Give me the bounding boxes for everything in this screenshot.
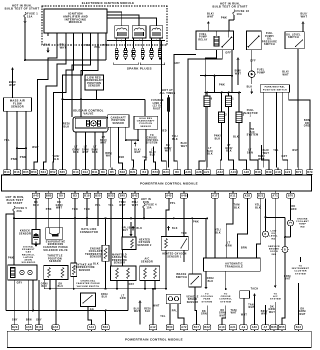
- svg-text:A17: A17: [212, 195, 218, 198]
- svg-text:SOLENOID VALVE: SOLENOID VALVE: [43, 249, 68, 252]
- svg-text:WHT: WHT: [134, 311, 140, 313]
- svg-text:10A: 10A: [147, 206, 152, 209]
- svg-text:D13: D13: [73, 171, 79, 174]
- svg-text:B4: B4: [142, 171, 146, 174]
- svg-text:A13: A13: [275, 171, 281, 174]
- svg-text:BRN/: BRN/: [105, 153, 112, 155]
- svg-text:WHT: WHT: [60, 46, 67, 50]
- svg-text:BRN: BRN: [241, 247, 247, 250]
- svg-text:BLK: BLK: [93, 264, 99, 266]
- svg-text:RELAY: RELAY: [198, 38, 207, 41]
- svg-text:A26: A26: [185, 171, 191, 174]
- svg-text:WHT: WHT: [235, 72, 242, 75]
- svg-text:BLK: BLK: [207, 153, 213, 156]
- svg-text:B34: B34: [103, 326, 109, 329]
- svg-text:B3: B3: [73, 195, 77, 198]
- svg-text:EXHAUST: EXHAUST: [22, 248, 35, 251]
- svg-text:VALVE: VALVE: [83, 112, 93, 116]
- svg-text:WHT: WHT: [248, 307, 254, 309]
- svg-text:SENSOR: SENSOR: [141, 260, 153, 263]
- svg-text:SYSTEM: SYSTEM: [220, 301, 231, 303]
- svg-text:B16: B16: [14, 171, 20, 174]
- svg-text:YEL: YEL: [273, 149, 279, 152]
- svg-text:BLK: BLK: [255, 206, 261, 209]
- svg-text:PNK: PNK: [8, 257, 14, 260]
- svg-text:BLK: BLK: [150, 155, 156, 157]
- svg-text:B52: B52: [50, 171, 56, 174]
- svg-text:PPL/: PPL/: [122, 228, 128, 230]
- svg-text:BULB TEST OR START: BULB TEST OR START: [212, 5, 247, 9]
- svg-text:WHT: WHT: [165, 150, 172, 153]
- svg-text:VEHICLE: VEHICLE: [186, 297, 198, 299]
- svg-text:SENSOR: SENSOR: [79, 270, 91, 272]
- svg-text:GAS: GAS: [26, 251, 32, 254]
- svg-text:WHT: WHT: [181, 145, 188, 148]
- svg-text:A72: A72: [181, 326, 187, 329]
- svg-text:MODULE: MODULE: [69, 20, 83, 24]
- svg-text:POSITION SWITCH: POSITION SWITCH: [263, 89, 287, 91]
- svg-text:BLK: BLK: [247, 86, 253, 89]
- svg-text:B70: B70: [288, 195, 294, 198]
- svg-text:PNK: PNK: [20, 155, 26, 159]
- svg-text:GRY: GRY: [12, 320, 18, 322]
- svg-text:MANIFOLD: MANIFOLD: [112, 254, 127, 257]
- svg-text:PNK: PNK: [193, 221, 199, 224]
- svg-text:IND: IND: [300, 226, 305, 228]
- svg-text:B13: B13: [296, 326, 302, 329]
- svg-text:SWITCH: SWITCH: [176, 276, 187, 279]
- svg-text:VACUUM SWITCH: VACUUM SWITCH: [77, 285, 100, 288]
- svg-text:B: B: [265, 234, 267, 236]
- svg-text:BLK: BLK: [226, 150, 232, 153]
- svg-text:OR START: OR START: [7, 202, 22, 205]
- svg-text:A9: A9: [242, 326, 246, 329]
- svg-text:SENSOR: SENSOR: [49, 260, 61, 263]
- svg-text:TACH: TACH: [251, 288, 259, 291]
- svg-text:A32: A32: [218, 171, 224, 174]
- svg-text:FUEL: FUEL: [266, 33, 274, 35]
- svg-text:TAN: TAN: [181, 232, 187, 235]
- svg-text:POSITION: POSITION: [112, 120, 126, 122]
- svg-text:BLK: BLK: [102, 297, 108, 299]
- svg-text:BLK: BLK: [53, 157, 59, 161]
- svg-text:OIL LEVEL: OIL LEVEL: [286, 34, 301, 36]
- svg-text:B42: B42: [132, 195, 138, 198]
- svg-text:SYSTEM: SYSTEM: [247, 134, 259, 137]
- svg-text:A21: A21: [204, 171, 210, 174]
- svg-text:SPARK PLUGS: SPARK PLUGS: [127, 67, 152, 71]
- svg-text:PPL: PPL: [170, 202, 176, 205]
- svg-text:COOLANT: COOLANT: [296, 220, 309, 223]
- svg-text:RUST): RUST): [153, 107, 162, 110]
- svg-text:OXYGEN: OXYGEN: [139, 242, 151, 244]
- svg-text:B18: B18: [120, 171, 126, 174]
- svg-text:SENSOR: SENSOR: [112, 123, 124, 125]
- svg-text:PUMP: PUMP: [257, 72, 265, 75]
- svg-text:B43: B43: [255, 171, 261, 174]
- svg-text:B16: B16: [36, 326, 42, 329]
- svg-text:BULB TEST OF START: BULB TEST OF START: [5, 7, 40, 11]
- svg-text:B49: B49: [266, 171, 272, 174]
- svg-text:DIGITAL: DIGITAL: [23, 246, 34, 249]
- svg-text:YEL: YEL: [142, 157, 148, 159]
- svg-text:B79: B79: [307, 171, 313, 174]
- svg-text:PNK: PNK: [219, 84, 225, 87]
- svg-text:RED/: RED/: [144, 309, 151, 311]
- svg-text:ORG/: ORG/: [101, 294, 108, 296]
- svg-text:CANISTER PURGE: CANISTER PURGE: [76, 282, 100, 285]
- svg-text:B50: B50: [95, 195, 101, 198]
- svg-text:GRN/: GRN/: [268, 309, 275, 311]
- svg-text:RED: RED: [119, 157, 125, 159]
- svg-text:GRN/: GRN/: [219, 313, 226, 315]
- svg-text:ALL TIMES: ALL TIMES: [159, 92, 175, 95]
- svg-text:B44: B44: [41, 171, 47, 174]
- svg-text:DK: DK: [301, 309, 305, 311]
- svg-text:A/C: A/C: [273, 295, 278, 298]
- svg-text:OFF: OFF: [225, 52, 231, 55]
- svg-text:TAN/: TAN/: [230, 309, 237, 312]
- svg-text:PNK: PNK: [102, 43, 108, 47]
- svg-text:CAMSHAFT: CAMSHAFT: [111, 116, 127, 119]
- svg-text:ORG: ORG: [304, 125, 310, 128]
- svg-text:B9: B9: [101, 171, 105, 174]
- svg-text:B41: B41: [92, 171, 98, 174]
- svg-text:A45: A45: [166, 195, 172, 198]
- svg-text:B19: B19: [84, 195, 90, 198]
- svg-text:SPEED: SPEED: [188, 299, 197, 301]
- svg-text:A60: A60: [252, 326, 258, 329]
- svg-text:WHT: WHT: [269, 312, 275, 314]
- svg-text:A71: A71: [272, 195, 278, 198]
- svg-text:OFF: OFF: [250, 60, 256, 63]
- svg-text:GRY: GRY: [174, 62, 180, 65]
- svg-text:B20: B20: [163, 171, 169, 174]
- svg-text:ELECTRONIC IGNITION MODULE: ELECTRONIC IGNITION MODULE: [82, 1, 135, 5]
- svg-text:BLK: BLK: [215, 231, 221, 234]
- svg-text:WHT: WHT: [100, 142, 107, 145]
- svg-text:BLK: BLK: [233, 136, 239, 139]
- svg-text:BLU: BLU: [58, 286, 64, 288]
- svg-text:DK: DK: [270, 307, 274, 309]
- svg-text:WHT: WHT: [122, 230, 128, 232]
- svg-text:K28: K28: [245, 195, 251, 198]
- svg-text:PNK: PNK: [11, 157, 17, 161]
- svg-text:ENGINE: ENGINE: [90, 249, 101, 251]
- svg-text:YEL: YEL: [4, 138, 10, 142]
- svg-text:B45: B45: [60, 171, 66, 174]
- svg-text:WHT: WHT: [207, 16, 214, 19]
- svg-text:B32: B32: [204, 326, 210, 329]
- svg-text:A28: A28: [244, 171, 250, 174]
- svg-text:SWITCH: SWITCH: [288, 37, 299, 39]
- svg-text:BLU/: BLU/: [134, 309, 141, 311]
- svg-text:WHT: WHT: [153, 306, 159, 308]
- svg-text:COOLANT: COOLANT: [89, 250, 103, 253]
- svg-text:FANS: FANS: [203, 298, 210, 301]
- svg-text:PPL: PPL: [94, 45, 100, 49]
- svg-text:GRN: GRN: [290, 208, 296, 211]
- svg-text:BLK: BLK: [44, 43, 50, 47]
- svg-text:BLK: BLK: [73, 151, 79, 154]
- svg-text:SENSOR: SENSOR: [90, 257, 102, 259]
- svg-text:SYSTEM: SYSTEM: [202, 301, 213, 303]
- svg-text:TRANSAXLE: TRANSAXLE: [225, 265, 243, 268]
- svg-text:BLK: BLK: [208, 280, 214, 283]
- svg-text:GRY: GRY: [17, 283, 23, 285]
- svg-text:POWERTRAIN CONTROL MODULE: POWERTRAIN CONTROL MODULE: [125, 338, 183, 342]
- svg-text:GRN: GRN: [120, 298, 126, 300]
- svg-text:B14: B14: [4, 171, 10, 174]
- svg-text:A28: A28: [196, 171, 202, 174]
- svg-text:LATION: LATION: [24, 256, 34, 259]
- svg-text:B21: B21: [130, 171, 136, 174]
- svg-text:D9: D9: [59, 195, 63, 198]
- svg-text:GRN: GRN: [226, 244, 232, 247]
- svg-text:PPL: PPL: [172, 311, 178, 313]
- svg-text:10A: 10A: [237, 12, 243, 16]
- svg-text:BLK: BLK: [137, 228, 143, 230]
- svg-text:WHT: WHT: [263, 152, 270, 155]
- svg-text:B72: B72: [296, 171, 302, 174]
- svg-text:B6B: B6B: [46, 195, 52, 198]
- svg-text:B22: B22: [258, 195, 264, 198]
- svg-text:EVAPORATIVE: EVAPORATIVE: [46, 240, 66, 243]
- svg-text:POWERTRAIN CONTROL MODULE: POWERTRAIN CONTROL MODULE: [140, 182, 198, 186]
- svg-text:A65: A65: [26, 326, 32, 329]
- svg-text:A11: A11: [230, 195, 236, 198]
- svg-text:BLK: BLK: [172, 228, 178, 230]
- svg-text:SENSOR: SENSOR: [19, 232, 31, 235]
- svg-text:LT: LT: [121, 296, 125, 298]
- svg-text:FUEL: FUEL: [199, 34, 207, 36]
- svg-text:WHT: WHT: [219, 315, 225, 317]
- svg-text:B60: B60: [167, 326, 173, 329]
- svg-text:WHT: WHT: [301, 16, 308, 19]
- svg-text:SYSTEM: SYSTEM: [270, 299, 281, 301]
- svg-text:CONNECTOR: CONNECTOR: [80, 231, 98, 234]
- svg-text:WHT: WHT: [282, 73, 289, 76]
- svg-text:SYSTEM: SYSTEM: [295, 273, 306, 275]
- svg-text:SENSOR 2: SENSOR 2: [137, 245, 152, 247]
- svg-text:B35: B35: [271, 326, 277, 329]
- svg-text:WHT: WHT: [241, 315, 247, 317]
- svg-text:A44: A44: [89, 326, 95, 329]
- svg-text:B65: B65: [23, 171, 29, 174]
- svg-text:A43: A43: [33, 195, 39, 198]
- svg-text:TEMPERATURE: TEMPERATURE: [74, 266, 95, 269]
- svg-text:20A: 20A: [17, 210, 23, 213]
- svg-text:DK: DK: [202, 311, 206, 313]
- svg-text:WHT: WHT: [231, 313, 237, 315]
- svg-text:WHT: WHT: [292, 149, 299, 152]
- svg-text:B53: B53: [31, 171, 37, 174]
- svg-text:B45: B45: [120, 195, 126, 198]
- svg-text:WHT: WHT: [261, 314, 267, 316]
- svg-text:PUMP: PUMP: [199, 37, 207, 39]
- svg-text:BLK: BLK: [92, 151, 98, 154]
- svg-text:BRN/: BRN/: [284, 276, 291, 278]
- svg-text:INTAKE AIR: INTAKE AIR: [76, 264, 92, 267]
- svg-text:DK: DK: [59, 284, 63, 286]
- svg-text:BLK: BLK: [215, 137, 221, 140]
- svg-text:A13: A13: [219, 326, 225, 329]
- svg-text:DK: DK: [221, 310, 225, 312]
- svg-text:GRN: GRN: [201, 314, 207, 316]
- svg-text:B: B: [284, 250, 286, 252]
- svg-text:SOLENOID: SOLENOID: [22, 262, 36, 264]
- svg-text:SENSOR: SENSOR: [187, 302, 199, 304]
- svg-text:WHT: WHT: [299, 314, 305, 316]
- svg-text:YEL: YEL: [160, 316, 166, 318]
- svg-text:EMISSIONS: EMISSIONS: [48, 244, 64, 246]
- svg-text:A12: A12: [150, 326, 156, 329]
- svg-text:IND: IND: [272, 254, 277, 256]
- svg-text:SWITCH: SWITCH: [264, 44, 275, 46]
- svg-text:PRESSURE: PRESSURE: [112, 260, 127, 262]
- svg-text:ABSOLUTE: ABSOLUTE: [112, 256, 127, 259]
- svg-text:SENSOR: SENSOR: [140, 126, 151, 128]
- svg-text:OFF: OFF: [129, 283, 135, 286]
- svg-text:GRY: GRY: [36, 320, 42, 322]
- svg-text:CHARCOAL: CHARCOAL: [80, 280, 95, 283]
- svg-text:A53: A53: [53, 326, 59, 329]
- svg-text:BRN/: BRN/: [261, 311, 268, 313]
- svg-text:BLK/: BLK/: [134, 150, 141, 152]
- svg-text:CANISTER PURGE: CANISTER PURGE: [43, 246, 68, 249]
- svg-text:WHT: WHT: [32, 145, 39, 149]
- svg-text:BLK: BLK: [234, 206, 240, 209]
- svg-text:BLU: BLU: [41, 286, 47, 288]
- svg-text:B8: B8: [175, 171, 179, 174]
- svg-text:BRN: BRN: [26, 320, 32, 322]
- svg-text:SENSOR: SENSOR: [88, 85, 100, 88]
- svg-text:SENSOR 1: SENSOR 1: [167, 256, 182, 258]
- svg-text:WHT: WHT: [134, 152, 140, 154]
- svg-text:SENSOR: SENSOR: [11, 105, 24, 109]
- svg-text:CRANKSHAFT: CRANKSHAFT: [137, 120, 155, 123]
- svg-text:GRY: GRY: [281, 155, 287, 158]
- svg-text:WHT: WHT: [106, 156, 112, 158]
- svg-text:WHT: WHT: [284, 279, 290, 281]
- svg-text:BLK: BLK: [63, 125, 69, 128]
- svg-text:ORN/: ORN/: [41, 284, 48, 286]
- svg-text:PUMP/: PUMP/: [265, 36, 274, 38]
- svg-text:B55: B55: [279, 326, 285, 329]
- svg-text:A10: A10: [231, 171, 237, 174]
- svg-text:SYSTEM: SYSTEM: [146, 143, 157, 145]
- svg-text:HEATED: HEATED: [139, 239, 150, 242]
- svg-text:BLK: BLK: [145, 311, 151, 313]
- svg-text:A7: A7: [264, 326, 268, 329]
- svg-text:PRESSURE: PRESSURE: [262, 41, 277, 43]
- svg-text:B17: B17: [194, 326, 200, 329]
- svg-text:B76: B76: [153, 171, 159, 174]
- svg-text:PNK: PNK: [221, 17, 227, 20]
- svg-text:B5: B5: [110, 171, 114, 174]
- svg-text:A21: A21: [230, 326, 236, 329]
- svg-text:BLK: BLK: [172, 138, 178, 141]
- svg-text:15A: 15A: [27, 15, 33, 19]
- svg-text:A23: A23: [285, 171, 291, 174]
- svg-text:OIL: OIL: [267, 39, 272, 41]
- svg-text:GRN/: GRN/: [299, 311, 306, 313]
- svg-text:D12: D12: [83, 171, 89, 174]
- svg-text:B29: B29: [12, 326, 18, 329]
- svg-text:B53: B53: [108, 195, 114, 198]
- svg-text:PARK/NEUTRAL: PARK/NEUTRAL: [265, 86, 286, 89]
- svg-text:TAN/: TAN/: [248, 304, 255, 307]
- svg-text:A48: A48: [181, 195, 187, 198]
- svg-text:WHT: WHT: [82, 151, 89, 154]
- svg-text:SENSOR: SENSOR: [114, 263, 126, 265]
